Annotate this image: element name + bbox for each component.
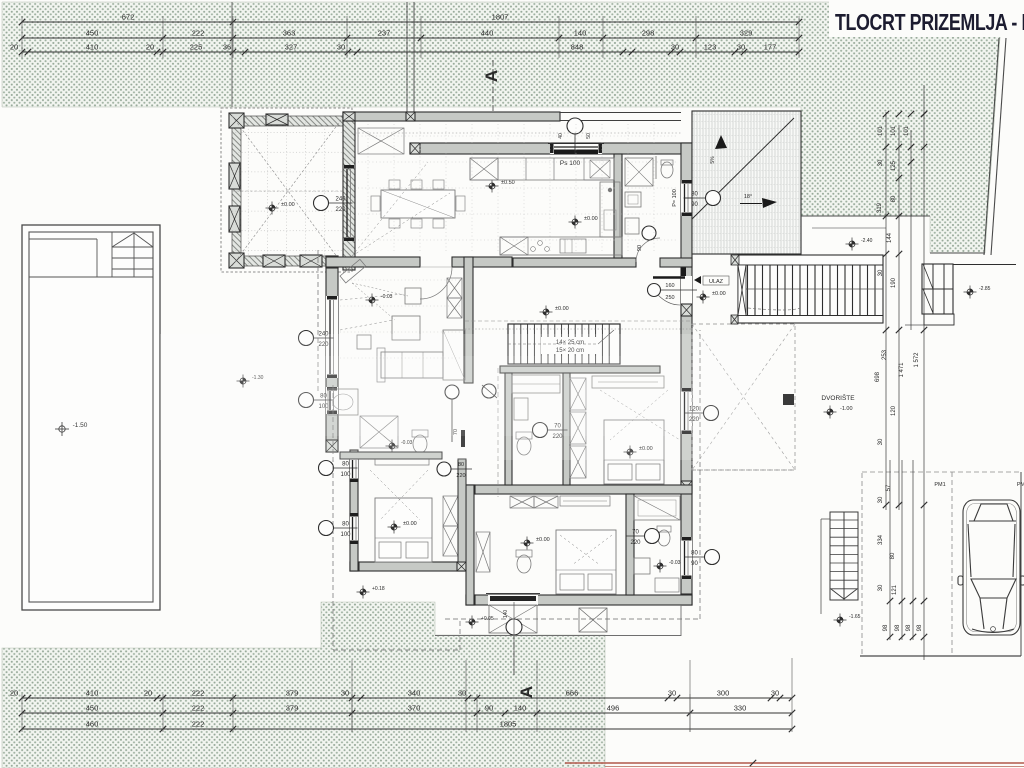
top dimension row 3 [22, 51, 799, 53]
svg-text:A: A [482, 70, 501, 82]
svg-text:98: 98 [895, 624, 901, 631]
section line A-A bottom [513, 633, 515, 676]
svg-text:379: 379 [286, 689, 299, 698]
west wall of bottom-centre room [466, 485, 474, 605]
svg-text:140: 140 [503, 610, 509, 619]
svg-text:410: 410 [86, 43, 99, 52]
dining table and chairs [381, 190, 455, 218]
svg-text:98: 98 [906, 624, 912, 631]
dining north wall [343, 112, 560, 121]
kitchen bath walls [614, 154, 622, 258]
svg-text:848: 848 [571, 43, 584, 52]
roof overhang dashed outline [445, 618, 700, 620]
bottom room bed [556, 530, 616, 594]
svg-text:90: 90 [691, 202, 698, 208]
svg-text:-0.03: -0.03 [381, 294, 393, 300]
bottom room closets [510, 496, 534, 508]
svg-text:1 471: 1 471 [899, 362, 905, 378]
svg-text:334: 334 [878, 534, 884, 545]
lawn bottom band [2, 602, 605, 768]
living east wall [464, 257, 473, 383]
svg-text:363: 363 [283, 29, 296, 38]
svg-text:450: 450 [86, 29, 99, 38]
svg-text:220: 220 [335, 207, 346, 213]
pool divider + shallow zone [29, 276, 153, 278]
svg-text:225: 225 [190, 43, 203, 52]
svg-text:DVORIŠTE: DVORIŠTE [821, 393, 855, 402]
svg-text:30: 30 [878, 438, 884, 445]
svg-text:±0.00: ±0.00 [584, 216, 598, 222]
NW pergola terrace dashed overhang [221, 108, 352, 272]
svg-text:40: 40 [558, 133, 564, 139]
svg-text:30: 30 [671, 43, 679, 52]
svg-text:253: 253 [882, 349, 888, 360]
bottom room wc/closet left [476, 532, 490, 572]
svg-text:±0.00: ±0.00 [555, 306, 569, 312]
living wardrobe right [447, 278, 462, 298]
west wall living/bath with windows [326, 256, 338, 452]
svg-text:100: 100 [340, 532, 351, 538]
svg-text:1 572: 1 572 [914, 352, 920, 368]
right balcony strip [922, 264, 953, 314]
svg-text:123: 123 [704, 43, 717, 52]
svg-text:101: 101 [891, 125, 897, 136]
svg-text:30: 30 [878, 584, 884, 591]
svg-text:370: 370 [408, 704, 421, 713]
svg-text:666: 666 [566, 689, 579, 698]
lawn top band + right region [2, 2, 1002, 253]
svg-text:1807: 1807 [492, 13, 509, 22]
ULAZ label [694, 276, 701, 284]
bath3 fixtures [634, 496, 680, 520]
car top view [958, 500, 1024, 635]
svg-text:222: 222 [192, 29, 205, 38]
bath2 walls [505, 373, 512, 485]
svg-text:100: 100 [340, 472, 351, 478]
svg-text:PM1: PM1 [934, 482, 945, 488]
svg-text:125: 125 [891, 160, 897, 171]
interior wall under stair [500, 366, 660, 373]
kitchen north wall with window Ps100 [410, 143, 692, 154]
svg-text:496: 496 [607, 704, 620, 713]
svg-text:-1.00: -1.00 [840, 406, 853, 412]
red plot line bottom [565, 762, 1024, 764]
svg-text:98: 98 [883, 624, 889, 631]
svg-text:410: 410 [86, 689, 99, 698]
svg-text:319: 319 [877, 202, 883, 213]
svg-text:30: 30 [668, 689, 676, 698]
wardrobe column [570, 378, 586, 410]
svg-text:98: 98 [917, 624, 923, 631]
sight-line dashes living [340, 320, 393, 330]
right vertical dims lower [889, 460, 891, 640]
svg-text:±0.00: ±0.00 [403, 521, 417, 527]
entry roof with hatch [692, 111, 801, 254]
wide external stair [738, 255, 883, 323]
svg-text:460: 460 [86, 720, 99, 729]
svg-text:-1.65: -1.65 [849, 614, 861, 620]
svg-text:P= 100: P= 100 [672, 189, 678, 207]
svg-text:450: 450 [86, 704, 99, 713]
svg-text:30: 30 [458, 689, 466, 698]
top dimension row 2 [22, 37, 799, 39]
svg-text:379: 379 [286, 704, 299, 713]
kitchen counters top row [470, 158, 614, 180]
bed1 room top wall [340, 452, 442, 459]
svg-text:20: 20 [10, 43, 18, 52]
svg-text:TLOCRT PRIZEMLJA - NO: TLOCRT PRIZEMLJA - NO [835, 10, 1024, 36]
svg-text:18°: 18° [744, 194, 752, 200]
kitchen appliance column right [625, 158, 653, 186]
parking area dashed [862, 472, 1021, 656]
svg-text:144: 144 [887, 232, 893, 243]
south wall bottom-left bedroom [350, 562, 466, 571]
stair walk line [748, 308, 800, 310]
svg-text:300: 300 [717, 689, 730, 698]
bottom dimension row 2 [22, 712, 792, 714]
living north wall [326, 257, 420, 267]
svg-text:90: 90 [691, 561, 698, 567]
top dimension row 1 [22, 21, 799, 23]
svg-text:-2.85: -2.85 [979, 286, 991, 292]
svg-text:140: 140 [514, 704, 527, 713]
svg-text:+0.18: +0.18 [372, 586, 385, 592]
entry door leaf + frame [653, 276, 685, 278]
svg-text:120: 120 [891, 405, 897, 416]
svg-text:20: 20 [10, 689, 18, 698]
svg-text:30: 30 [771, 689, 779, 698]
svg-text:-2.40: -2.40 [861, 238, 873, 244]
svg-text:30: 30 [878, 496, 884, 503]
svg-text:30: 30 [341, 689, 349, 698]
svg-text:5%: 5% [710, 156, 716, 164]
svg-text:-0.03: -0.03 [669, 560, 681, 566]
svg-text:80: 80 [342, 522, 349, 528]
svg-text:90: 90 [485, 704, 493, 713]
svg-text:30: 30 [337, 43, 345, 52]
entry porch hatch [579, 608, 607, 632]
bedroom2 bed [604, 420, 664, 484]
interior modular dotted grid [367, 124, 369, 252]
watermark wash band [160, 334, 760, 460]
svg-text:80: 80 [691, 551, 698, 557]
svg-text:672: 672 [122, 13, 135, 22]
svg-text:327: 327 [285, 43, 298, 52]
svg-text:298: 298 [642, 29, 655, 38]
retaining wall lines [801, 215, 930, 217]
fireplace corner [340, 259, 366, 283]
svg-text:30: 30 [737, 43, 745, 52]
svg-text:ULAZ: ULAZ [709, 279, 724, 285]
bath3 / bed3 divider [626, 494, 634, 595]
overhang dashes above stair [465, 320, 692, 322]
dining NE pillar [358, 128, 404, 154]
svg-text:-1.50: -1.50 [73, 422, 88, 429]
pergola hatched walls [232, 116, 344, 126]
base line below house bottom [435, 635, 681, 637]
bath2 fixtures [512, 375, 560, 393]
svg-text:330: 330 [734, 704, 747, 713]
svg-text:80: 80 [891, 195, 897, 202]
svg-text:240: 240 [335, 197, 346, 203]
wall between mid rooms and bottom room [466, 485, 692, 494]
bedroom1 bed [375, 498, 432, 562]
svg-text:160: 160 [665, 283, 674, 289]
svg-text:80: 80 [458, 462, 464, 468]
svg-text:440: 440 [481, 29, 494, 38]
svg-text:±0.00: ±0.00 [712, 291, 726, 297]
svg-text:140: 140 [574, 29, 587, 38]
entry steps [489, 605, 537, 633]
right vertical dims upper [885, 112, 887, 510]
bottom dimension row 1 [22, 697, 792, 699]
svg-text:A: A [517, 686, 536, 698]
svg-text:220: 220 [456, 473, 465, 479]
dashed ceiling edge dining [355, 132, 681, 134]
svg-text:70: 70 [632, 530, 639, 536]
south wall of bottom-centre room with entry door [466, 595, 692, 605]
title block [829, 0, 1024, 37]
bath1 fixtures [328, 389, 358, 415]
svg-text:36: 36 [223, 43, 231, 52]
internal staircase [508, 324, 620, 364]
kitchen island [500, 237, 622, 255]
svg-text:30: 30 [878, 159, 884, 166]
svg-text:±0.50: ±0.50 [501, 180, 515, 186]
svg-text:Ps 100: Ps 100 [560, 160, 581, 167]
svg-text:±0.00: ±0.00 [536, 537, 550, 543]
small wc top right [661, 162, 673, 178]
svg-text:PM: PM [1017, 482, 1024, 488]
bottom dimension row 3 [22, 728, 792, 730]
svg-text:80: 80 [890, 552, 896, 559]
hallway door tags [445, 385, 459, 399]
external ladder stair [830, 512, 858, 600]
bottom dim extension verticals [351, 660, 353, 732]
svg-text:101: 101 [904, 125, 910, 136]
pool steps [111, 232, 113, 277]
svg-text:329: 329 [740, 29, 753, 38]
svg-text:220: 220 [630, 540, 641, 546]
svg-text:30: 30 [878, 269, 884, 276]
svg-text:250: 250 [665, 295, 674, 301]
svg-text:340: 340 [408, 689, 421, 698]
pool level marker [55, 422, 69, 436]
swimming pool [22, 225, 160, 610]
svg-text:698: 698 [875, 371, 881, 382]
svg-text:80: 80 [691, 192, 698, 198]
svg-text:80: 80 [342, 462, 349, 468]
bedroom1 wardrobe [443, 496, 458, 526]
svg-text:222: 222 [192, 704, 205, 713]
svg-text:222: 222 [192, 720, 205, 729]
top dim extension verticals [21, 16, 23, 58]
west wall upper (dining) with window [343, 112, 355, 270]
stair left brace [738, 265, 746, 316]
svg-text:222: 222 [192, 689, 205, 698]
svg-text:±0.00: ±0.00 [281, 202, 295, 208]
kitchen/living divider wall [513, 258, 636, 267]
svg-text:90: 90 [637, 245, 643, 251]
kitchen right counter [600, 182, 620, 237]
svg-text:101: 101 [878, 125, 884, 136]
pergola posts [229, 113, 244, 128]
section line A-A top [492, 60, 494, 112]
coffee table [392, 316, 420, 340]
west wall lower (bedroom) [350, 450, 358, 571]
svg-text:20: 20 [146, 43, 154, 52]
svg-text:121: 121 [892, 584, 898, 595]
east wall [681, 143, 692, 605]
property boundary slant [984, 38, 999, 255]
sight-line dashes dining [352, 193, 450, 256]
svg-text:190: 190 [891, 277, 897, 288]
svg-text:177: 177 [764, 43, 777, 52]
svg-text:20: 20 [144, 689, 152, 698]
pergola interior grid [232, 132, 344, 134]
svg-text:1805: 1805 [500, 720, 517, 729]
bedroom2 dresser [592, 376, 664, 388]
svg-text:237: 237 [378, 29, 391, 38]
courtyard pergola [692, 324, 795, 470]
svg-text:57: 57 [886, 484, 892, 491]
living room sofa [381, 352, 443, 378]
tv square [357, 335, 371, 349]
